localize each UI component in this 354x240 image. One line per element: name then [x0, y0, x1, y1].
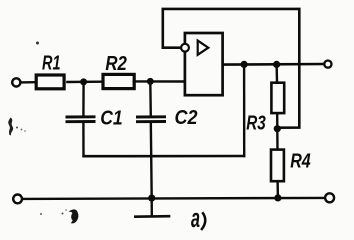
svg-text:C1: C1 — [100, 107, 123, 129]
output terminal — [324, 61, 331, 68]
node output-feedback junction — [241, 61, 248, 68]
wire C1 to feedback rail — [82, 121, 84, 157]
node R2-C2 junction — [147, 78, 154, 85]
svg-text:C2: C2 — [175, 107, 198, 129]
bottom-left terminal — [13, 195, 22, 204]
wire R2 to op-amp — [133, 80, 185, 82]
svg-text:R2: R2 — [105, 53, 127, 75]
input terminal — [12, 78, 20, 86]
node ground junction — [148, 195, 155, 202]
ground — [134, 198, 170, 217]
resistor R1 — [36, 53, 64, 89]
bottom rail wire — [22, 198, 326, 199]
capacitor C1 — [66, 107, 123, 129]
resistor R3 — [246, 64, 284, 134]
node R4-rail junction — [274, 194, 281, 201]
resistor R4 — [271, 129, 311, 198]
bottom-right terminal — [325, 193, 334, 202]
node R1-R2-C1 junction — [80, 78, 87, 85]
svg-text:R4: R4 — [290, 151, 311, 173]
wire feedback bottom horizontal — [82, 155, 245, 158]
op-amp output wire — [223, 63, 325, 66]
feedback wire to inverting input — [163, 9, 299, 128]
wire C2 to ground rail — [150, 121, 153, 198]
wire C2 branch down — [149, 81, 152, 117]
svg-text:а: а — [191, 203, 200, 233]
node output-R3 junction — [273, 61, 280, 68]
svg-text:R3: R3 — [246, 112, 266, 134]
wire feedback vertical to output node — [243, 64, 245, 157]
op-amp U1 — [181, 33, 222, 95]
resistor R2 — [103, 53, 134, 89]
wire input to R1 — [20, 81, 35, 84]
svg-text:R1: R1 — [42, 53, 61, 75]
wire C1 branch down — [82, 82, 85, 118]
node R3-R4-feedback junction — [274, 125, 281, 132]
wire R1 to R2 — [66, 80, 101, 83]
capacitor C2 — [136, 107, 198, 129]
